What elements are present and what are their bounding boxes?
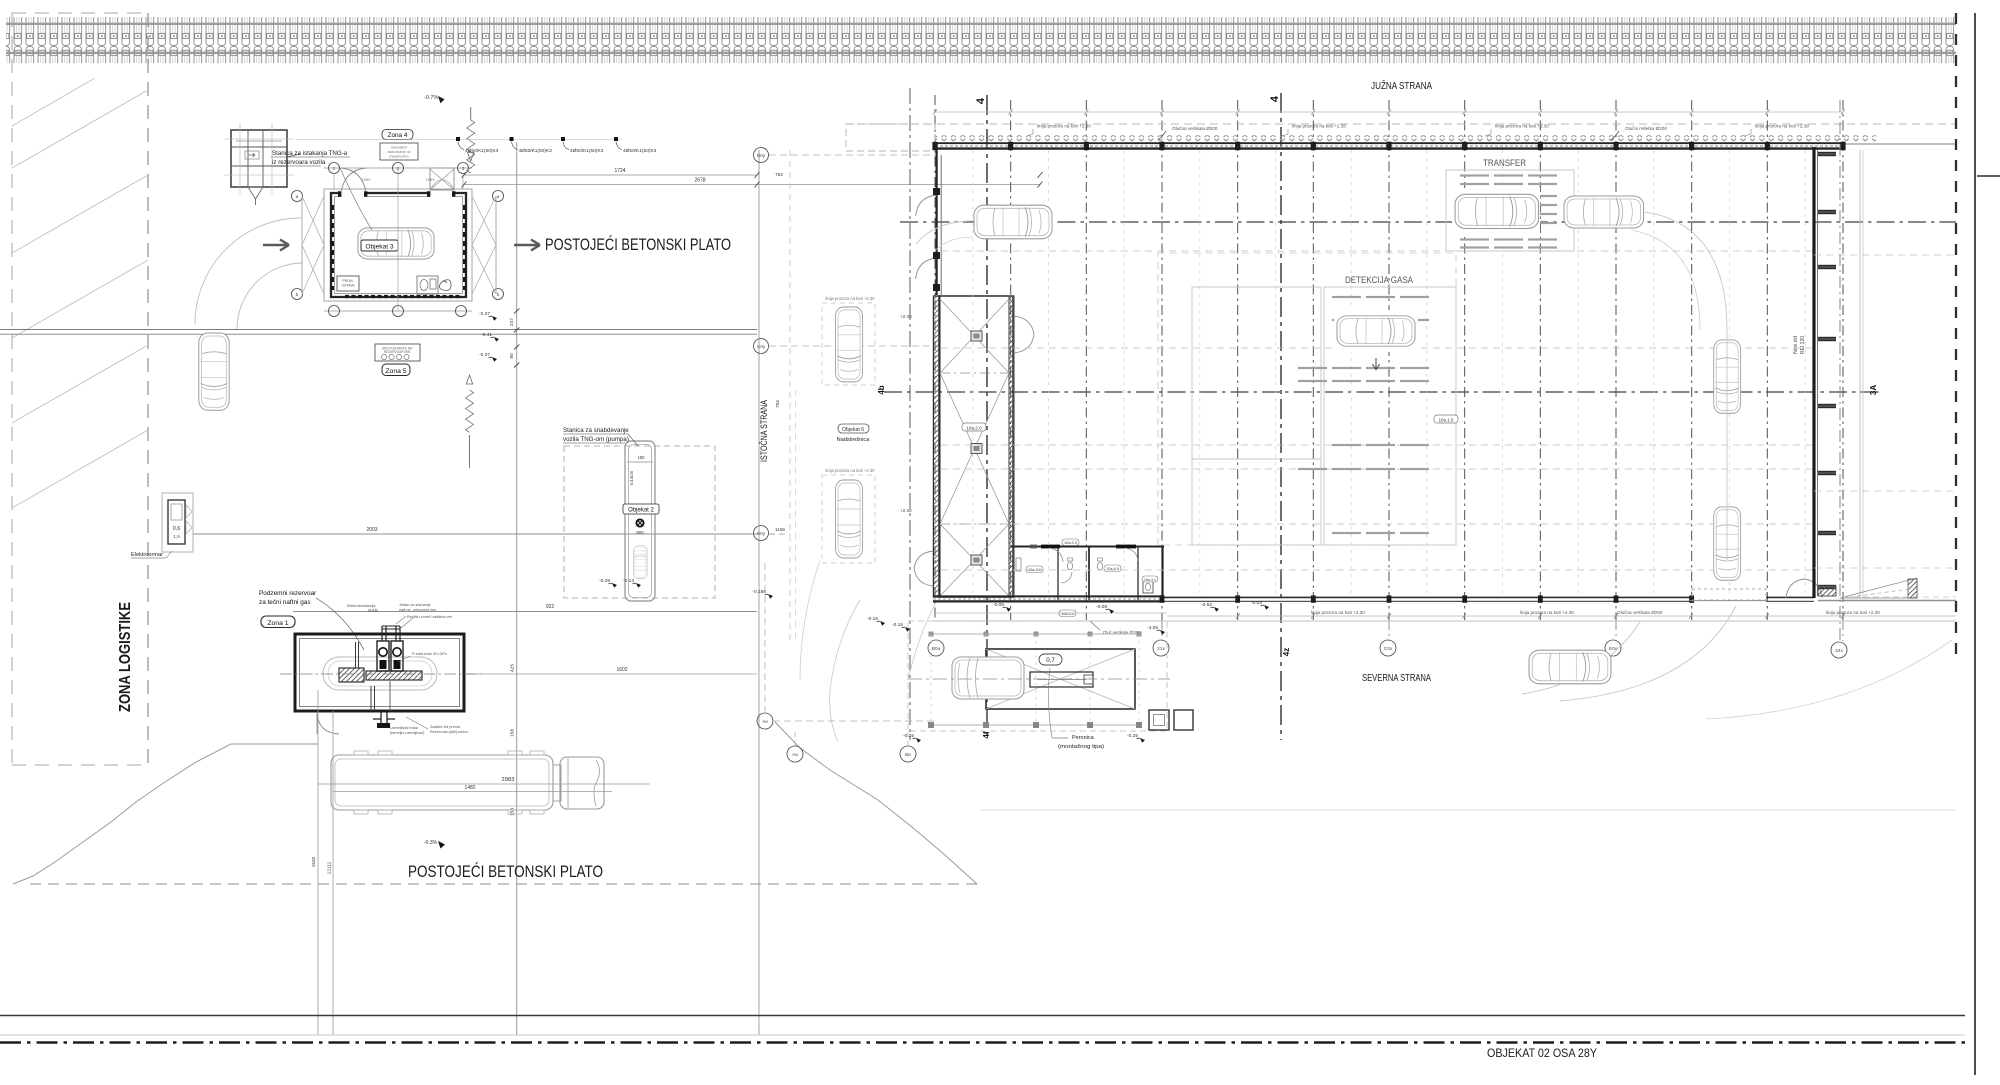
svg-text:1999: 1999 bbox=[362, 177, 372, 182]
window bowtie row above top wall bbox=[935, 135, 1876, 141]
dashed connector lines around Ae bbox=[773, 720, 935, 722]
svg-text:(temeljni uzemljivač): (temeljni uzemljivač) bbox=[390, 731, 425, 735]
svg-text:(montažnog tipa): (montažnog tipa) bbox=[1058, 744, 1104, 750]
light line y=810 right part bbox=[980, 809, 1956, 811]
drive path arcs inside hall bbox=[1645, 212, 1727, 560]
dimension line y=613 left segment bbox=[933, 612, 1167, 614]
parking stall dashed rects + cars (middle) bbox=[822, 303, 875, 385]
svg-text:Zastitni zid prema: Zastitni zid prema bbox=[430, 725, 461, 729]
label box Objekat 2 bbox=[623, 504, 659, 514]
leader from stanica text to car bbox=[340, 168, 372, 230]
top dimension mini line y=112 bbox=[935, 111, 1843, 113]
svg-text:GAS: GAS bbox=[368, 608, 378, 613]
svg-text:16a.1.0: 16a.1.0 bbox=[1439, 418, 1454, 423]
svg-text:C0x: C0x bbox=[1384, 646, 1393, 652]
svg-text:4Ø50/K1(50)K3: 4Ø50/K1(50)K3 bbox=[623, 148, 657, 154]
svg-text:4Ø50/K1(50)K3: 4Ø50/K1(50)K3 bbox=[570, 148, 604, 154]
svg-text:POSTOJEĆI BETONSKI PLATO: POSTOJEĆI BETONSKI PLATO bbox=[545, 235, 731, 254]
light double line right of wall x=1860 bbox=[1859, 150, 1861, 598]
svg-text:-0.13: -0.13 bbox=[623, 578, 634, 584]
svg-text:C0y: C0y bbox=[757, 344, 766, 350]
car inside Objekat 3 bbox=[358, 228, 434, 259]
svg-text:-0.62: -0.62 bbox=[1201, 602, 1212, 608]
svg-text:4f: 4f bbox=[982, 731, 991, 738]
svg-text:-0.28: -0.28 bbox=[599, 578, 610, 584]
door arc bottom-left of Zona 1 bbox=[317, 712, 339, 734]
svg-text:4: 4 bbox=[975, 97, 987, 104]
svg-text:Rezervoaru(AB),beton: Rezervoaru(AB),beton bbox=[430, 730, 468, 734]
left wall doors (swing arcs) bbox=[916, 195, 937, 279]
svg-text:D0y: D0y bbox=[757, 153, 766, 159]
dashed road line y=884 bbox=[30, 883, 977, 885]
peronica platform lines with node squares bbox=[931, 633, 1139, 635]
svg-text:Olučna vertikala Ø200: Olučna vertikala Ø200 bbox=[1172, 126, 1218, 131]
elevation flags below Objekat 2 bbox=[599, 578, 617, 588]
svg-text:21x: 21x bbox=[1157, 646, 1165, 652]
detekcija gasa zone rectangles bbox=[1192, 287, 1321, 545]
label 0,7 oval bbox=[1039, 654, 1062, 665]
light dashed vertical x=790 bbox=[789, 150, 791, 640]
svg-text:0,6: 0,6 bbox=[173, 526, 181, 532]
dashed boundary - top horizontal bbox=[12, 12, 148, 14]
svg-text:za tečni naftni gas: za tečni naftni gas bbox=[259, 599, 311, 606]
info box below Zona 4 bbox=[380, 143, 418, 160]
diagonal hatching of logistics zone bbox=[12, 78, 148, 508]
svg-text:80: 80 bbox=[509, 353, 515, 359]
door swing arcs above Objekat 3 opening 1 bbox=[341, 168, 366, 192]
svg-text:+2.30: +2.30 bbox=[900, 508, 912, 513]
svg-text:Objekat 6: Objekat 6 bbox=[842, 427, 864, 433]
grid circles below building bbox=[928, 640, 944, 656]
svg-text:Novi zid: Novi zid bbox=[1793, 336, 1799, 354]
car right of transfer bbox=[1564, 196, 1644, 228]
dimension line y=175 (1724) bbox=[464, 174, 757, 176]
canopy door arcs left bottom outside bbox=[914, 551, 933, 586]
slope arrow with break (lower) at x=469 bbox=[466, 375, 472, 384]
svg-text:JUŽNA STRANA: JUŽNA STRANA bbox=[1371, 79, 1432, 92]
elevation flags right of Objekat 3 (Zona 5 area) bbox=[479, 311, 497, 321]
svg-text:vozila TNG-om (pumpa): vozila TNG-om (pumpa) bbox=[563, 436, 629, 443]
svg-text:10a.4.1: 10a.4.1 bbox=[1144, 578, 1156, 582]
top wall of building (thick) bbox=[935, 142, 1841, 144]
toilet block top wall bbox=[1011, 546, 1164, 548]
dash-dot vertical x=910 bbox=[909, 88, 911, 740]
small room box inside Objekat 3 bottom-left bbox=[337, 276, 359, 291]
info box above Zona 5 bbox=[375, 344, 420, 361]
pipes up from pumps bbox=[382, 626, 400, 641]
peronica dashed zone rect bbox=[908, 621, 1167, 731]
building Objekat 3 - outer frame bbox=[324, 189, 472, 301]
svg-text:b: b bbox=[497, 292, 500, 298]
interior light dashed vertical lines (midbay) bbox=[973, 150, 1805, 596]
Zona 1 enclosure thick wall bbox=[295, 634, 464, 711]
svg-text:Stanica za snabdevanje: Stanica za snabdevanje bbox=[563, 427, 629, 434]
svg-text:Podzemni rezervoar: Podzemni rezervoar bbox=[259, 590, 317, 597]
canopy left wall thick with hatch bbox=[933, 296, 940, 597]
detekcija hatch bars bbox=[1298, 296, 1429, 534]
right thick wall (Novi zid REI 120) bbox=[1812, 147, 1815, 598]
canopy X braces bbox=[940, 299, 1009, 596]
svg-text:4Ø50/K1(50)K3: 4Ø50/K1(50)K3 bbox=[465, 148, 499, 154]
direction arrow west of Objekat 3 bbox=[263, 240, 289, 251]
down arrow below detekcija car bbox=[1373, 358, 1380, 370]
label Zona 4 box bbox=[382, 130, 413, 140]
bottom wall segment right of door bbox=[1766, 596, 1814, 598]
svg-text:iz rezervoara vozila: iz rezervoara vozila bbox=[272, 159, 326, 166]
svg-text:Aa: Aa bbox=[792, 752, 798, 758]
svg-text:800: 800 bbox=[636, 530, 644, 535]
svg-text:-0.37: -0.37 bbox=[479, 311, 490, 317]
elektroormar cabinet outer box bbox=[162, 493, 193, 552]
ground line below building y=621 bbox=[933, 620, 1956, 622]
svg-text:2678: 2678 bbox=[694, 178, 705, 184]
column ticks on right wall exterior bbox=[1818, 152, 1836, 589]
svg-text:SEVERNA STRANA: SEVERNA STRANA bbox=[1362, 672, 1431, 684]
svg-text:-0.05: -0.05 bbox=[993, 602, 1004, 608]
dash-dot vertical to circle 34x at x=1840 bbox=[1839, 100, 1841, 641]
svg-text:(neophodno): (neophodno) bbox=[389, 155, 408, 159]
car in Objekat 2 lane bbox=[634, 546, 647, 579]
svg-text:12111: 12111 bbox=[327, 861, 333, 874]
svg-text:t=14cm: t=14cm bbox=[629, 470, 634, 485]
section line horizontal y=392 bbox=[884, 391, 1880, 393]
elevation flag right -0.188 bbox=[752, 589, 773, 599]
car in detekcija zone bbox=[1334, 310, 1418, 352]
arrowhead down for upper slope arrow bbox=[468, 153, 474, 162]
washer machine bar bbox=[1030, 672, 1093, 687]
svg-text:-0.41: -0.41 bbox=[481, 332, 492, 338]
svg-text:ZONA LOGISTIKE: ZONA LOGISTIKE bbox=[117, 602, 134, 712]
light lines from grid circles to building bbox=[769, 154, 935, 156]
svg-text:linija prozora na koti +2.30: linija prozora na koti +2.30 bbox=[1037, 124, 1091, 129]
svg-text:4: 4 bbox=[1269, 95, 1281, 102]
horizontal road line upper (double) y=330 bbox=[0, 329, 757, 331]
underground tank stadium shape bbox=[323, 657, 437, 690]
long vertical axis line x=759 (grid D-B column) bbox=[758, 150, 760, 1035]
light dashed vertical x=795 bbox=[795, 390, 797, 640]
svg-text:a: a bbox=[497, 195, 500, 200]
door gap + dotted canopy bottom right bbox=[1692, 589, 1766, 600]
svg-text:10a.3.3: 10a.3.3 bbox=[1064, 541, 1077, 545]
dimension line y=611 (922) bbox=[293, 611, 757, 613]
svg-text:Ae: Ae bbox=[762, 719, 768, 725]
dashed boundary - inner vertical bbox=[147, 13, 149, 765]
svg-text:Olučni rešetka Ø200: Olučni rešetka Ø200 bbox=[1625, 126, 1667, 131]
railroad rail upper bbox=[6, 23, 1956, 25]
svg-text:1724: 1724 bbox=[614, 168, 625, 174]
svg-text:TRANSFER: TRANSFER bbox=[1483, 158, 1526, 168]
dimension line y=184 (2678) bbox=[464, 184, 1040, 186]
turning arcs from road to Objekat 3 (outer) bbox=[195, 218, 301, 324]
svg-text:linija prozora na koti +2.30: linija prozora na koti +2.30 bbox=[825, 296, 875, 301]
svg-text:-0.15: -0.15 bbox=[867, 616, 878, 622]
svg-text:zadrzavanje do: zadrzavanje do bbox=[388, 150, 411, 154]
svg-text:10a.2.0: 10a.2.0 bbox=[966, 426, 982, 431]
column marks on bottom wall bbox=[1160, 595, 1694, 602]
svg-text:Objekat 3: Objekat 3 bbox=[365, 244, 394, 251]
grid circles Ae Aa Be bbox=[757, 713, 773, 729]
dashed canopy rect at building top-left bbox=[846, 124, 935, 151]
peronica building solid rect bbox=[986, 649, 1135, 709]
svg-text:ISTOČNA STRANA: ISTOČNA STRANA bbox=[759, 400, 770, 462]
ground line right of building bbox=[1818, 600, 1956, 602]
structure: stanica za istakanje TNG-a (square grid) bbox=[224, 123, 294, 194]
grid circles around Objekat 3 bbox=[292, 191, 303, 202]
svg-text:Objekat 2: Objekat 2 bbox=[628, 508, 654, 514]
svg-text:3: 3 bbox=[462, 166, 465, 172]
leader from label to tank bbox=[316, 598, 364, 650]
toilet room labels bbox=[1026, 566, 1043, 573]
light dashed horizontals extending right to border bbox=[1814, 255, 1956, 568]
svg-text:754: 754 bbox=[775, 172, 783, 177]
building Objekat 3 - thick walls bbox=[331, 190, 466, 297]
svg-text:R zašt.zone 50=36°k: R zašt.zone 50=36°k bbox=[412, 652, 447, 656]
svg-text:Zona 4: Zona 4 bbox=[388, 132, 408, 139]
hatched block left of ramp bbox=[1818, 586, 1836, 596]
svg-text:-0.08: -0.08 bbox=[1096, 604, 1107, 610]
label box Objekat 3 bbox=[361, 240, 398, 251]
leader and label: Stanica za istakanja TNG-a bbox=[287, 154, 300, 157]
road edge curve bottom-left bbox=[13, 744, 318, 884]
light dashed horizontal y=124 above top wall bbox=[846, 123, 1956, 125]
svg-text:Stanica za istakanja TNG-a: Stanica za istakanja TNG-a bbox=[272, 150, 348, 157]
dimension lines for truck bbox=[318, 783, 650, 785]
dimension line y=616 with ticks bbox=[1167, 615, 1956, 617]
grid circle D0 at x=764 bbox=[769, 533, 790, 535]
svg-text:2983: 2983 bbox=[502, 777, 515, 783]
svg-text:-0.03: -0.03 bbox=[1251, 600, 1262, 606]
label 16a.1.0 oval bbox=[1434, 415, 1458, 423]
dashed boundary - bottom horizontal bbox=[12, 764, 148, 766]
transfer zone rectangle bbox=[1446, 170, 1574, 251]
two small squares right of peronica bbox=[1149, 710, 1169, 730]
bottom dimension line with circles bbox=[324, 310, 472, 312]
svg-text:Nadstrešnica: Nadstrešnica bbox=[837, 437, 871, 443]
svg-text:-0.3%: -0.3% bbox=[424, 840, 438, 846]
dimension verticals below Zona 1 bbox=[317, 690, 319, 1035]
bottom pipes and valves of Zona 1 bbox=[373, 711, 395, 725]
soil mark dots and codes near Zona 4 bbox=[456, 137, 460, 141]
svg-text:1156: 1156 bbox=[775, 527, 785, 532]
svg-text:-0.37: -0.37 bbox=[479, 352, 490, 358]
svg-text:-0.15: -0.15 bbox=[892, 622, 903, 628]
dimension line y=534 with 2003 label bbox=[193, 533, 757, 535]
svg-text:linija prozora na koti +2.38: linija prozora na koti +2.38 bbox=[1755, 124, 1809, 129]
svg-text:Jedan za snimanje: Jedan za snimanje bbox=[399, 603, 431, 607]
interior light dashed horizontal lines bbox=[941, 251, 1814, 570]
label Zona 1 box bbox=[261, 616, 295, 628]
turn arcs bottom right outside building bbox=[1522, 622, 1640, 694]
svg-text:naft.ne, primoćeni čas: naft.ne, primoćeni čas bbox=[399, 608, 436, 612]
svg-text:Be: Be bbox=[905, 752, 911, 758]
svg-text:4b: 4b bbox=[877, 385, 886, 394]
label Objekat 6 Nadstresnica bbox=[838, 424, 869, 433]
svg-text:247: 247 bbox=[509, 318, 515, 326]
svg-text:B0a: B0a bbox=[932, 646, 941, 652]
section line 4 vertical at x=987 bbox=[986, 95, 988, 740]
svg-text:34x: 34x bbox=[1835, 648, 1843, 654]
envelope guide right of Objekat 3 bbox=[495, 196, 497, 294]
door swing arcs at bottom right wall bbox=[1786, 579, 1822, 598]
svg-text:1999: 1999 bbox=[426, 177, 436, 182]
svg-text:4z: 4z bbox=[1282, 648, 1291, 656]
elektroormar cabinet inner bbox=[168, 500, 185, 544]
svg-text:E0x: E0x bbox=[1609, 646, 1618, 652]
svg-text:OBJEKAT 02 OSA 28Y: OBJEKAT 02 OSA 28Y bbox=[1487, 1046, 1597, 1060]
pump symbol (black circle) bbox=[636, 519, 643, 526]
toilet fixtures bbox=[1067, 562, 1072, 570]
svg-text:dozvoljeno: dozvoljeno bbox=[391, 146, 407, 150]
solid right border x=1975 bbox=[1974, 13, 1976, 1075]
svg-text:linija prozora na koti +2.30: linija prozora na koti +2.30 bbox=[1495, 124, 1549, 129]
svg-text:4Ø50/K1(50)K3: 4Ø50/K1(50)K3 bbox=[519, 148, 553, 154]
envelope guide left of Objekat 3 bbox=[301, 196, 303, 294]
svg-text:REZERVOAR MIN: REZERVOAR MIN bbox=[384, 350, 411, 354]
svg-text:a: a bbox=[296, 195, 299, 200]
toilet fixture inside Objekat 3 bottom-right bbox=[417, 276, 438, 294]
svg-text:linija prozora na koti +2.38: linija prozora na koti +2.38 bbox=[1292, 124, 1346, 129]
svg-text:1: 1 bbox=[333, 166, 336, 172]
Objekat 2 dashed zone rectangle bbox=[564, 446, 715, 598]
long vertical axis line x=517 bbox=[516, 142, 518, 1035]
truck with trailer (plan view) bbox=[331, 751, 604, 814]
svg-text:1,6: 1,6 bbox=[173, 534, 180, 540]
svg-text:linija prozora na koti +2.30: linija prozora na koti +2.30 bbox=[825, 468, 875, 473]
svg-text:-0.188: -0.188 bbox=[752, 589, 766, 595]
building grid vertical dash-dot lines bbox=[935, 95, 1843, 620]
wash zone light dashed rect bbox=[1158, 253, 1456, 545]
svg-text:1482: 1482 bbox=[464, 785, 475, 791]
ramp detail bottom right corner bbox=[1840, 578, 1917, 598]
svg-text:Zona 5: Zona 5 bbox=[385, 368, 406, 375]
dimension text 1602 on center line bbox=[465, 673, 757, 675]
turning arcs (inner) bbox=[237, 263, 303, 329]
svg-text:425: 425 bbox=[510, 664, 516, 672]
svg-text:b: b bbox=[296, 292, 299, 298]
svg-text:2003: 2003 bbox=[366, 527, 377, 533]
svg-text:-0.7%: -0.7% bbox=[424, 95, 438, 101]
top edge line continuation to right border bbox=[1841, 143, 1956, 145]
small elevation flags below bottom wall bbox=[993, 602, 1011, 612]
bottom dash-dot boundary y=1042 bbox=[0, 1041, 1965, 1044]
svg-text:754: 754 bbox=[775, 400, 780, 408]
bottom solid road line y=1015 bbox=[0, 1015, 1965, 1017]
svg-text:10a.4.0: 10a.4.0 bbox=[1106, 567, 1119, 571]
center line through Zona 1 bbox=[280, 673, 481, 675]
bottom wall of building thick part bbox=[933, 595, 1164, 597]
grid extensions down to circles bbox=[1162, 620, 1843, 641]
svg-text:-4.05: -4.05 bbox=[1147, 625, 1158, 631]
car in transfer zone bbox=[1452, 188, 1540, 235]
level line y=139.5 east of stanica bbox=[296, 139, 622, 141]
section line horizontal y=222 bbox=[900, 221, 1956, 223]
van at peronica bbox=[952, 657, 1024, 699]
canopy door arcs right side bbox=[1014, 316, 1034, 353]
svg-text:3A: 3A bbox=[1869, 385, 1878, 395]
svg-text:linija prozora na koti +2.30: linija prozora na koti +2.30 bbox=[1520, 610, 1574, 615]
horizontal road line lower y=334 bbox=[0, 333, 757, 335]
svg-text:Uzemljivač traka: Uzemljivač traka bbox=[390, 726, 419, 730]
tick on right border y=176 bbox=[1977, 175, 2000, 177]
center line through peronica bbox=[908, 678, 1170, 680]
svg-text:linija prozora na koti +2.30: linija prozora na koti +2.30 bbox=[1826, 610, 1880, 615]
svg-text:OSTAVA: OSTAVA bbox=[342, 284, 356, 288]
railroad rail lower bbox=[6, 52, 1956, 54]
svg-text:B0y: B0y bbox=[757, 531, 766, 537]
slope arrow with break (upper) at x=470 bbox=[470, 107, 472, 120]
railroad track band bbox=[6, 17, 1956, 63]
svg-text:Rešitku zoneV zaštitna ver: Rešitku zoneV zaštitna ver bbox=[407, 615, 453, 619]
canopy right wall bbox=[1009, 296, 1014, 597]
nadstresnica canopy outline bbox=[939, 296, 1013, 597]
inner pipes in Zona 1 bbox=[356, 642, 359, 668]
car bottom right outside bbox=[1529, 650, 1611, 684]
svg-text:Olučna vertikala Ø200: Olučna vertikala Ø200 bbox=[1617, 610, 1663, 615]
turn arcs from peronica door bbox=[908, 604, 935, 680]
bottom light line y=1035 bbox=[0, 1034, 1965, 1036]
svg-text:158: 158 bbox=[510, 729, 516, 737]
svg-text:Elektroormar: Elektroormar bbox=[131, 552, 163, 558]
car top-left inside hall bbox=[974, 205, 1052, 239]
grid circles C0 B0 on x=761 bbox=[754, 148, 769, 163]
peronica envelope diagonals bbox=[986, 649, 1135, 709]
svg-text:1632: 1632 bbox=[311, 856, 317, 867]
svg-text:153: 153 bbox=[510, 808, 516, 816]
svg-text:POSTOJEĆI BETONSKI PLATO: POSTOJEĆI BETONSKI PLATO bbox=[408, 862, 603, 881]
road edge curve to the right of Zona 1 bbox=[775, 722, 977, 884]
svg-text:DETEKCIJA GASA: DETEKCIJA GASA bbox=[1345, 275, 1413, 285]
spiral mark inside Objekat 3 bbox=[439, 280, 451, 291]
transfer hatch bars bbox=[1460, 174, 1557, 248]
toilet door arcs bbox=[1049, 548, 1138, 583]
window projection square above opening 2 bbox=[430, 168, 454, 190]
pump units (dark) bbox=[377, 641, 389, 671]
bold dashed boundary right x=1956 bbox=[1955, 13, 1957, 660]
cars inside hall right side (vertical) bbox=[1714, 340, 1741, 413]
verticals from circles through building bbox=[397, 168, 399, 311]
Objekat 2 island (vertical lane) bbox=[625, 441, 655, 601]
elevation flags at peronica corners bbox=[903, 733, 921, 743]
svg-text:Peronica: Peronica bbox=[1072, 735, 1095, 741]
svg-text:922: 922 bbox=[546, 604, 555, 610]
svg-text:-0.25: -0.25 bbox=[903, 733, 914, 739]
svg-text:1602: 1602 bbox=[616, 667, 627, 673]
car on road left (vertical) bbox=[199, 333, 229, 410]
drain triangle below stanica bbox=[248, 187, 263, 199]
toilet block inner walls bbox=[1057, 547, 1059, 600]
pump pad hatched bar left bbox=[339, 668, 364, 682]
elektroormar door flaps bbox=[186, 505, 192, 534]
svg-text:150: 150 bbox=[638, 455, 646, 460]
bottom wall thin continuation to right bbox=[1164, 596, 1690, 598]
top dimension line with circles 1 2 3 bbox=[324, 167, 472, 169]
svg-text:+2.30: +2.30 bbox=[900, 314, 912, 319]
pump pad hatched bar right bbox=[366, 671, 422, 680]
direction arrow east of Objekat 3 bbox=[514, 240, 540, 251]
section line 4 vertical at x=1281 bbox=[1280, 93, 1282, 740]
label Zona 5 box bbox=[382, 364, 410, 376]
canopy label 10a.2.0 bbox=[962, 423, 986, 431]
svg-text:Zona 1: Zona 1 bbox=[267, 620, 288, 627]
svg-text:0,7: 0,7 bbox=[1046, 657, 1055, 664]
toilet block lintel bars (dark) bbox=[1041, 545, 1060, 549]
column marks on top wall bbox=[932, 142, 1845, 150]
svg-text:PROM.: PROM. bbox=[342, 279, 353, 283]
dashed boundary of logistics zone - left vertical bbox=[11, 13, 13, 765]
svg-text:-0.25: -0.25 bbox=[1127, 733, 1138, 739]
svg-text:linija prozora na koti +2.30: linija prozora na koti +2.30 bbox=[1311, 610, 1365, 615]
left wall of building upper segment bbox=[935, 143, 937, 295]
